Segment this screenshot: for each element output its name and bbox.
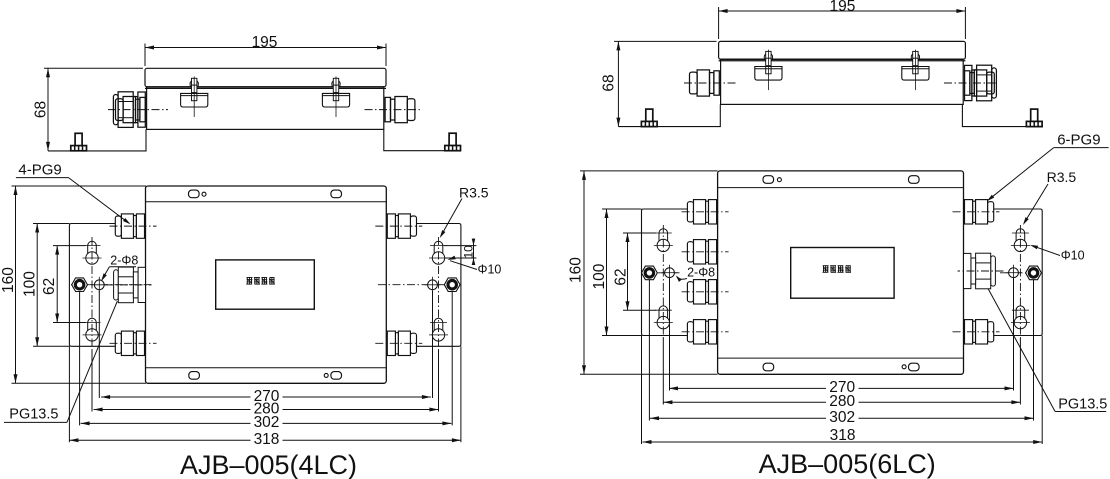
foot bolt right (front 4LC) (449, 133, 456, 146)
lid seam (front 6LC) (719, 60, 966, 62)
dimension 68 (front 4LC) (47, 68, 49, 151)
hole 2-Φ8 left (plan 6LC) (665, 268, 675, 278)
lid clamp right (front 4LC) (332, 80, 340, 88)
dimension 68 (front 6LC) (617, 41, 619, 126)
pilot hole bottom-right (plan 4LC) (324, 373, 328, 377)
dimension 160 (plan 6LC) (583, 171, 585, 374)
svg-text:2-Φ8: 2-Φ8 (687, 266, 715, 280)
svg-text:PG13.5: PG13.5 (9, 407, 58, 423)
svg-text:302: 302 (829, 409, 855, 426)
cable gland PG9 right end (front 4LC) (385, 97, 390, 121)
mounting bracket left (front 6LC) (618, 104, 720, 126)
cable gland PG13.5+PG9 right end (front 6LC) (965, 65, 972, 100)
keyhole slot bottom-right (plan 4LC) (432, 329, 444, 341)
centerline left gland (front 4LC) (108, 109, 168, 111)
lid screw slot bottom-right (plan 4LC) (331, 372, 342, 380)
keyhole slot centerline right (plan 6LC) (1019, 225, 1021, 338)
svg-text:PG13.5: PG13.5 (1058, 397, 1107, 413)
box outline (plan 4LC) (146, 186, 387, 383)
lid screw slot top-right (plan 6LC) (909, 176, 920, 184)
lid screw slot bottom-left (plan 6LC) (763, 363, 774, 371)
box outline (plan 6LC) (718, 171, 964, 374)
cable gland PG13.5 middle-right (plan 6LC) (991, 256, 996, 286)
cable gland PG13.5 middle-left (plan 4LC) (114, 270, 119, 300)
keyhole slot centerline left (plan 4LC) (91, 237, 93, 350)
hole 2-Φ8 right (plan 6LC) (1009, 268, 1019, 278)
svg-text:Φ10: Φ10 (1061, 249, 1085, 263)
keyhole slot bottom-left (plan 4LC) (86, 329, 98, 341)
centerline right gland (front 4LC) (365, 109, 420, 111)
cable gland PG9 #1 left (plan 6LC) (687, 202, 693, 222)
svg-text:R3.5: R3.5 (1047, 169, 1077, 185)
lid screw slot bottom-right (plan 6LC) (909, 363, 920, 371)
keyhole slot bottom-right (plan 6LC) (1014, 316, 1026, 328)
mounting plate left (plan 6LC) (642, 209, 718, 336)
mounting plate right (plan 6LC) (964, 209, 1043, 336)
mounting bracket left (front 4LC) (48, 129, 146, 151)
centerline left gland (front 6LC) (684, 82, 738, 84)
dimension 100 (plan 4LC) (36, 224, 38, 347)
dimension 318 (plan 4LC) (69, 439, 250, 441)
svg-text:10: 10 (461, 245, 475, 259)
nameplate (plan 4LC) (216, 260, 315, 309)
svg-text:100: 100 (22, 271, 39, 297)
extension lines bottom dims (plan 4LC) (98, 291, 100, 398)
cable gland PG9 bottom-right (plan 4LC) (410, 333, 416, 353)
cable gland PG9 top-left (plan 4LC) (115, 216, 121, 236)
dimension 270 (plan 6LC) (669, 387, 826, 389)
nameplate text 铭牌标签 (4LC) (247, 277, 253, 279)
keyhole slot bottom-left (plan 6LC) (657, 316, 669, 328)
svg-text:Φ10: Φ10 (478, 262, 502, 276)
svg-text:62: 62 (41, 278, 58, 295)
hex bolt left (plan 4LC) (72, 278, 88, 292)
cable gland PG13.5+PG9 left end (front 4LC) (138, 92, 145, 127)
lid screw slot top-left (plan 6LC) (763, 176, 774, 184)
hex bolt right (plan 4LC) (444, 278, 460, 292)
lid seam (front 4LC) (145, 87, 386, 89)
dimension 318 (plan 6LC) (643, 441, 1043, 443)
svg-text:160: 160 (0, 267, 17, 293)
horizontal centerline left (plan 4LC) (71, 284, 154, 286)
keyhole slot top-left (plan 4LC) (86, 252, 98, 264)
dimension 100 (plan 6LC) (606, 209, 608, 336)
svg-text:AJB–005(4LC): AJB–005(4LC) (180, 450, 357, 479)
dimension 62 (plan 4LC) (56, 246, 58, 323)
mounting bracket right (front 4LC) (384, 129, 461, 150)
pilot hole top-left (plan 6LC) (777, 178, 781, 182)
svg-text:AJB–005(6LC): AJB–005(6LC) (759, 449, 936, 479)
svg-text:6-PG9: 6-PG9 (1057, 132, 1100, 149)
foot bolt left (front 6LC) (646, 109, 653, 122)
horizontal centerline left (plan 6LC) (643, 272, 682, 274)
dimension 10 keyhole (plan 4LC) (444, 245, 476, 247)
svg-text:R3.5: R3.5 (459, 185, 489, 201)
lid clamp right (front 6LC) (911, 53, 919, 61)
cable gland PG9 left end (front 6LC) (714, 71, 719, 95)
dimension 302 (plan 4LC) (81, 422, 251, 424)
svg-text:318: 318 (254, 431, 280, 448)
svg-text:4-PG9: 4-PG9 (18, 162, 61, 179)
lid screw slot top-right (plan 4LC) (331, 190, 342, 198)
keyhole slot centerline left (plan 6LC) (662, 225, 664, 338)
lid flange line bottom (plan 4LC) (146, 367, 387, 369)
svg-text:160: 160 (568, 257, 585, 283)
cable gland PG9 #3 left (plan 6LC) (687, 282, 693, 302)
lid screw slot bottom-left (plan 4LC) (189, 372, 200, 380)
keyhole slot top-left (plan 6LC) (657, 239, 669, 251)
cable gland PG9 #5 top-right (plan 6LC) (988, 202, 994, 222)
dimension 280 (plan 4LC) (94, 409, 251, 411)
hole 2-Φ8 right (plan 4LC) (428, 280, 438, 290)
lid (front 4LC) (145, 68, 386, 86)
cable gland PG9 #2 left (plan 6LC) (687, 242, 693, 262)
lid (front 6LC) (719, 41, 966, 59)
horizontal centerline right (plan 4LC) (378, 284, 459, 286)
keyhole slot centerline right (plan 4LC) (438, 237, 440, 350)
svg-text:62: 62 (612, 268, 629, 285)
hex bolt right (plan 6LC) (1026, 266, 1042, 280)
pilot hole bottom-right (plan 6LC) (902, 365, 906, 369)
svg-text:68: 68 (601, 74, 618, 91)
svg-text:318: 318 (830, 427, 856, 444)
dimension 280 (plan 6LC) (663, 401, 826, 403)
svg-text:195: 195 (829, 0, 855, 15)
svg-text:2-Φ8: 2-Φ8 (110, 253, 138, 267)
hole 2-Φ8 left (plan 4LC) (94, 280, 104, 290)
svg-text:100: 100 (591, 263, 608, 289)
mounting plate left (plan 4LC) (69, 224, 145, 347)
mounting plate right (plan 4LC) (386, 224, 461, 347)
dimension 160 (plan 4LC) (15, 186, 17, 383)
dimension 302 (plan 6LC) (650, 417, 826, 419)
lid flange line top (plan 4LC) (146, 201, 387, 203)
body (front 4LC) (147, 87, 384, 129)
dimension 195 (front 6LC) (719, 10, 966, 12)
centerline right gland (front 6LC) (944, 82, 998, 84)
extension lines bottom dims (plan 6LC) (669, 278, 671, 391)
lid clamp left (front 4LC) (190, 80, 198, 88)
lid screw slot top-left (plan 4LC) (189, 190, 200, 198)
lid clamp left (front 6LC) (764, 53, 772, 61)
svg-text:280: 280 (829, 393, 855, 410)
keyhole slot top-right (plan 4LC) (432, 252, 444, 264)
lid flange line bottom (plan 6LC) (718, 357, 964, 359)
foot bolt right (front 6LC) (1031, 109, 1038, 122)
cable gland PG9 #6 bottom-right (plan 6LC) (988, 322, 994, 342)
dimension 195 (front 4LC) (145, 47, 386, 49)
nameplate text 铭牌标签 (6LC) (823, 265, 829, 267)
dimension 62 (plan 6LC) (627, 233, 629, 310)
nameplate (plan 6LC) (791, 248, 894, 299)
svg-text:195: 195 (252, 34, 278, 51)
keyhole slot top-right (plan 6LC) (1014, 239, 1026, 251)
pilot hole top-left (plan 4LC) (202, 192, 206, 196)
body (front 6LC) (721, 59, 964, 104)
cable gland PG9 #4 left (plan 6LC) (687, 322, 693, 342)
hex bolt left (plan 6LC) (642, 266, 658, 280)
cable gland PG9 bottom-left (plan 4LC) (115, 333, 121, 353)
cable gland PG9 top-right (plan 4LC) (410, 216, 416, 236)
dimension 270 (plan 4LC) (101, 396, 250, 398)
foot bolt left (front 4LC) (75, 133, 82, 146)
svg-text:302: 302 (254, 414, 280, 431)
lid flange line top (plan 6LC) (718, 187, 964, 189)
horizontal centerline right (plan 6LC) (1000, 272, 1041, 274)
svg-text:68: 68 (33, 101, 50, 118)
mounting bracket right (front 6LC) (962, 104, 1043, 126)
